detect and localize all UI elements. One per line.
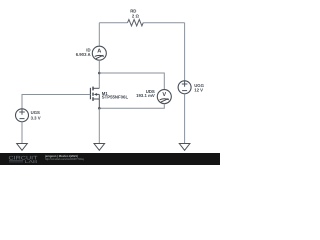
node drain junction dot (98, 72, 101, 75)
svg-text:2 Ω: 2 Ω (132, 13, 140, 18)
ammeter ID (92, 46, 106, 60)
svg-text:V: V (162, 92, 166, 98)
wire voltmeter bottom to source node (99, 104, 164, 109)
wire source node down to ground (98, 108, 100, 143)
node source junction dot (98, 107, 101, 110)
wire right vertical from top corner to UGG (184, 23, 186, 81)
wire UGS bottom to ground (21, 122, 23, 144)
wire top horizontal left of resistor RD (99, 22, 127, 24)
wire ammeter bottom to drain node (98, 60, 100, 88)
svg-text:STP55NF06L: STP55NF06L (102, 95, 129, 100)
svg-text:6.903 A: 6.903 A (76, 52, 91, 57)
svg-text:3.3 V: 3.3 V (31, 116, 41, 121)
voltage source UGS (16, 109, 29, 122)
wire UGG bottom to ground (184, 94, 186, 144)
ground under UGG (179, 144, 190, 151)
wire top horizontal right of resistor RD (143, 22, 184, 24)
ground under UGS (17, 144, 28, 151)
wire left vertical from top corner to ammeter (98, 23, 100, 47)
svg-text:A: A (97, 49, 101, 55)
voltage source UGG (178, 81, 191, 94)
wire gate from UGS to M1 (22, 95, 90, 109)
resistor RD (128, 20, 144, 26)
CircuitLab logo wordmark (9, 155, 39, 164)
svg-text:193.1 mV: 193.1 mV (136, 93, 155, 98)
voltmeter UDS (157, 90, 171, 104)
footer bar (0, 153, 220, 165)
svg-text:http://circuitlab.com/c/z22695: http://circuitlab.com/c/z226957729nq (45, 157, 84, 161)
svg-text:LAB: LAB (25, 159, 38, 164)
svg-text:UGS: UGS (31, 110, 40, 115)
ground under M1 source (94, 144, 105, 151)
svg-text:12 V: 12 V (194, 88, 203, 93)
wire drain node to voltmeter top (99, 73, 164, 90)
transistor M1 (90, 87, 99, 109)
